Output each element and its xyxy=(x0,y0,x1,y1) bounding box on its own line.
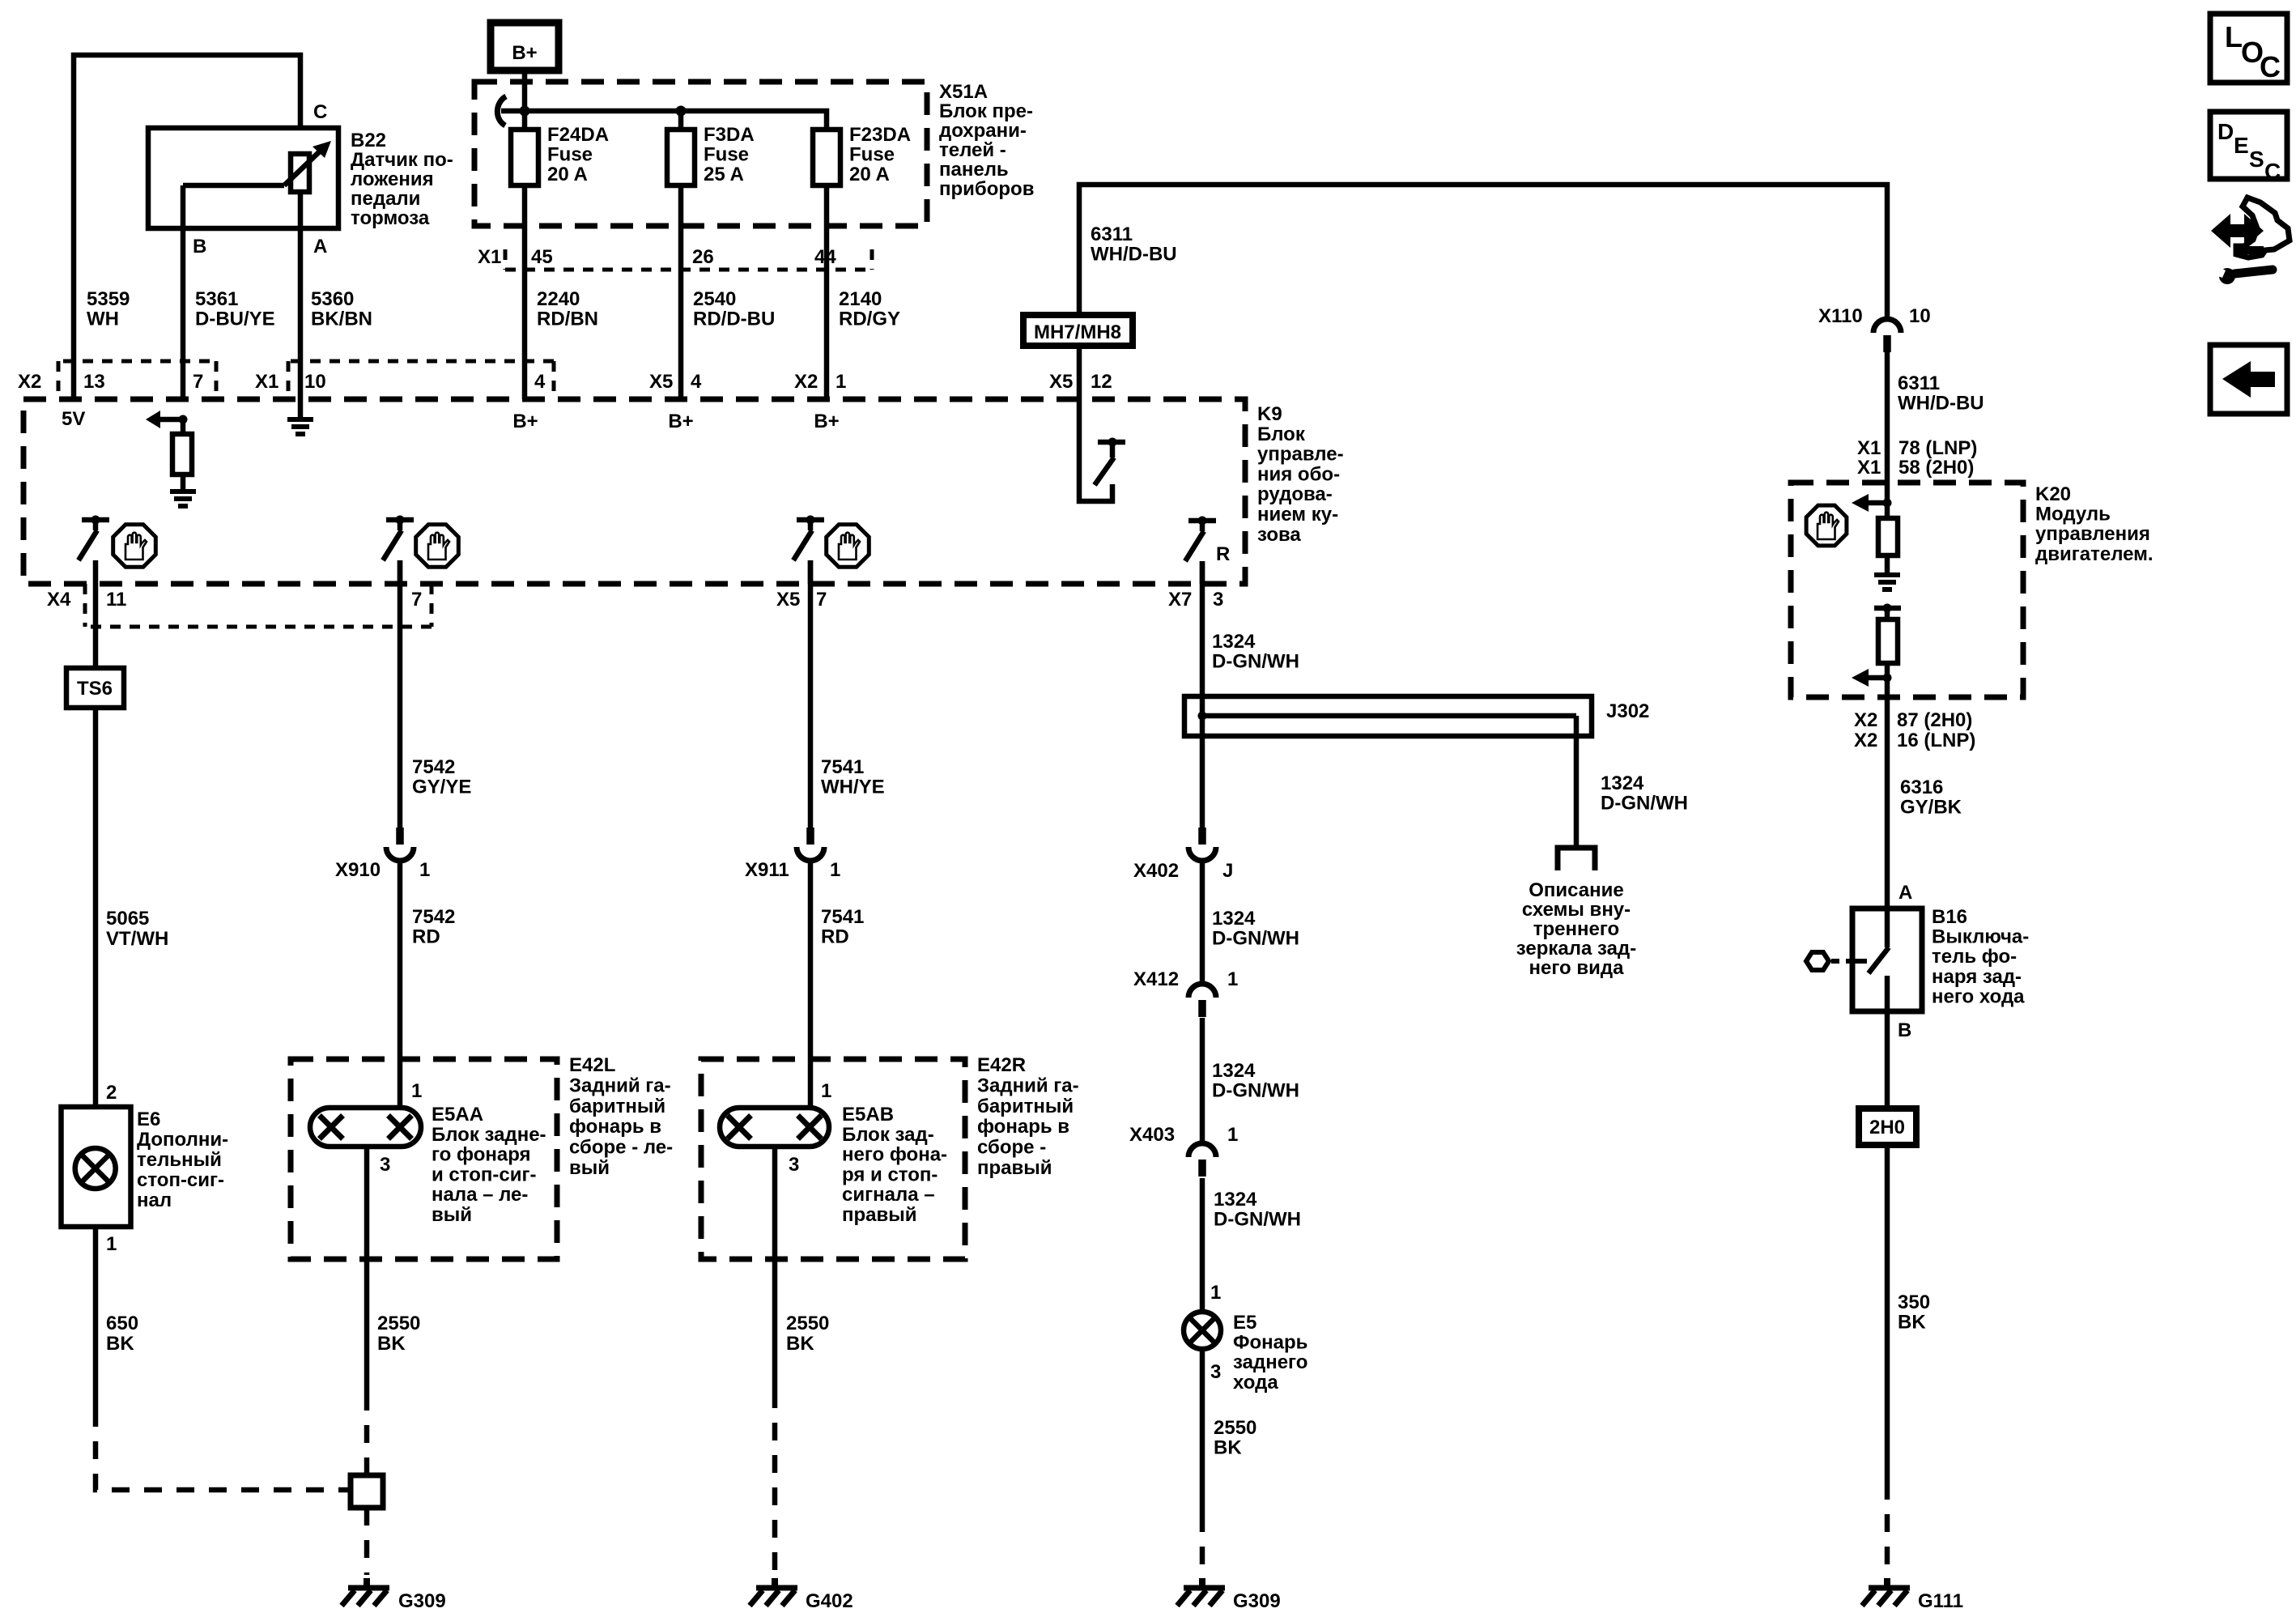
svg-text:WH/D-BU: WH/D-BU xyxy=(1898,393,1984,415)
connector X910 xyxy=(396,828,404,845)
wire X4-11 to TS6 xyxy=(93,584,99,668)
svg-text:WH: WH xyxy=(87,309,119,330)
svg-text:наря зад-: наря зад- xyxy=(1932,966,2022,988)
svg-text:D-BU/YE: D-BU/YE xyxy=(195,309,275,330)
svg-text:C: C xyxy=(2264,159,2281,184)
svg-text:нал: нал xyxy=(137,1189,172,1211)
svg-text:7541: 7541 xyxy=(821,756,864,778)
svg-text:1324: 1324 xyxy=(1212,631,1256,653)
svg-text:D-GN/WH: D-GN/WH xyxy=(1212,651,1299,673)
svg-text:го фонаря: го фонаря xyxy=(432,1144,531,1166)
svg-text:1: 1 xyxy=(1210,1282,1221,1304)
svg-text:управле-: управле- xyxy=(1257,444,1344,466)
svg-text:6316: 6316 xyxy=(1900,777,1943,798)
svg-text:E5: E5 xyxy=(1233,1312,1256,1334)
svg-text:панель: панель xyxy=(939,159,1009,181)
icon car with arrows and wrench xyxy=(2211,214,2264,248)
svg-text:650: 650 xyxy=(106,1313,138,1334)
svg-text:X1: X1 xyxy=(255,371,278,393)
wire 7542 RD xyxy=(398,861,403,1108)
svg-text:фонарь в: фонарь в xyxy=(977,1116,1069,1138)
svg-text:1: 1 xyxy=(821,1080,831,1102)
svg-text:WH/D-BU: WH/D-BU xyxy=(1091,244,1177,266)
manual actuator hex xyxy=(1806,952,1829,970)
svg-text:тель фо-: тель фо- xyxy=(1932,946,2017,968)
svg-text:X412: X412 xyxy=(1133,968,1179,990)
bulb unit E5AB (dual filament) xyxy=(720,1108,829,1147)
K20 series resistor xyxy=(1878,619,1898,663)
svg-text:F3DA: F3DA xyxy=(704,124,755,146)
svg-text:Fuse: Fuse xyxy=(547,144,593,166)
svg-text:Датчик по-: Датчик по- xyxy=(351,149,453,171)
stop-hand octagon 1 xyxy=(113,525,156,568)
svg-text:1: 1 xyxy=(419,859,430,881)
fuse F24DA 20A xyxy=(511,130,538,185)
svg-text:Выключа-: Выключа- xyxy=(1932,926,2029,948)
svg-text:X5: X5 xyxy=(649,371,673,393)
svg-text:WH/YE: WH/YE xyxy=(821,777,885,798)
svg-text:GY/YE: GY/YE xyxy=(412,777,471,798)
svg-text:X4: X4 xyxy=(47,589,71,611)
svg-text:E5AA: E5AA xyxy=(432,1104,483,1126)
svg-text:Fuse: Fuse xyxy=(849,144,895,166)
svg-text:X1: X1 xyxy=(1857,457,1881,479)
dashed wire to ground G111 xyxy=(1885,1482,1890,1575)
wire 7541 RD xyxy=(808,861,814,1108)
wire 1324 from K9 X7-3 xyxy=(1200,561,1205,828)
svg-text:1324: 1324 xyxy=(1214,1189,1257,1211)
svg-text:ния обо-: ния обо- xyxy=(1257,463,1340,485)
junction dot at F3DA xyxy=(676,106,687,117)
terminal to mirror circuit xyxy=(1558,848,1595,870)
stop-hand octagon 2 xyxy=(416,525,459,568)
svg-text:5065: 5065 xyxy=(106,908,149,930)
stop-hand octagon 3 xyxy=(827,525,870,568)
svg-text:J: J xyxy=(1222,860,1233,882)
wire pin X5-7 to E5AB xyxy=(808,560,814,828)
icon DESC box xyxy=(2210,112,2287,179)
K20 pull-up resistor xyxy=(1878,518,1898,555)
wire 2550 BK from E5 xyxy=(1200,1349,1205,1514)
ground under resistor xyxy=(170,489,196,494)
svg-text:схемы вну-: схемы вну- xyxy=(1522,899,1631,921)
svg-text:дохрани-: дохрани- xyxy=(939,120,1027,142)
svg-text:B+: B+ xyxy=(512,411,538,432)
svg-text:B22: B22 xyxy=(351,130,386,151)
svg-text:TS6: TS6 xyxy=(77,678,113,700)
svg-text:рудова-: рудова- xyxy=(1257,483,1333,505)
icon back-arrow box xyxy=(2210,345,2287,414)
svg-text:1: 1 xyxy=(1227,968,1238,990)
wire pin7 to E5AA xyxy=(398,560,403,828)
module K9 dashed box xyxy=(23,399,1245,584)
wire B16 to 2H0 xyxy=(1885,1011,1890,1108)
ground G111 xyxy=(1884,1578,1890,1586)
svg-text:B+: B+ xyxy=(814,411,839,432)
svg-text:20 A: 20 A xyxy=(547,164,588,185)
svg-text:7: 7 xyxy=(193,371,203,393)
svg-text:Задний га-: Задний га- xyxy=(977,1074,1079,1096)
svg-text:X2: X2 xyxy=(18,371,41,393)
svg-text:20 A: 20 A xyxy=(849,164,890,185)
svg-text:X5: X5 xyxy=(1049,371,1073,393)
svg-text:двигателем.: двигателем. xyxy=(2035,543,2154,565)
svg-text:1: 1 xyxy=(835,371,846,393)
svg-text:1324: 1324 xyxy=(1601,772,1644,794)
internal resistor on 5361 xyxy=(181,419,186,434)
svg-text:BK/BN: BK/BN xyxy=(311,309,372,330)
svg-text:G111: G111 xyxy=(1918,1590,1963,1612)
svg-text:2: 2 xyxy=(106,1082,117,1104)
ground G309 right xyxy=(1199,1578,1205,1586)
svg-text:350: 350 xyxy=(1898,1291,1930,1313)
wire A 5360 xyxy=(298,192,304,399)
svg-text:2H0: 2H0 xyxy=(1869,1117,1905,1138)
svg-text:D: D xyxy=(2217,119,2234,144)
fuse F23DA 20A xyxy=(813,130,840,185)
svg-text:4: 4 xyxy=(691,371,702,393)
svg-text:вый: вый xyxy=(432,1204,472,1226)
connector X911 xyxy=(806,828,814,845)
svg-text:Дополни-: Дополни- xyxy=(137,1129,228,1151)
wire B 5361 xyxy=(181,185,186,399)
sensor box B22 xyxy=(148,128,338,228)
svg-text:него вида: него вида xyxy=(1529,957,1625,979)
svg-text:K9: K9 xyxy=(1257,403,1282,425)
svg-text:Блок: Блок xyxy=(1257,423,1306,445)
svg-text:правый: правый xyxy=(842,1204,917,1226)
svg-text:Описание: Описание xyxy=(1529,879,1624,901)
svg-text:E42R: E42R xyxy=(977,1054,1026,1076)
svg-text:Фонарь: Фонарь xyxy=(1233,1332,1307,1354)
svg-text:зеркала зад-: зеркала зад- xyxy=(1516,938,1636,960)
svg-text:78 (LNP): 78 (LNP) xyxy=(1898,437,1977,459)
svg-text:тельный: тельный xyxy=(137,1149,222,1171)
lamp assembly E42R dashed box xyxy=(701,1059,965,1259)
J302 bus bar xyxy=(1202,713,1576,719)
svg-text:6311: 6311 xyxy=(1091,223,1133,245)
svg-text:3: 3 xyxy=(380,1154,390,1176)
dashed wire to ground xyxy=(364,1508,370,1575)
svg-text:87 (2H0): 87 (2H0) xyxy=(1897,709,1972,731)
svg-text:X911: X911 xyxy=(745,859,789,881)
dashed wire to splice square xyxy=(364,1393,370,1475)
lamp assembly E42L dashed box xyxy=(291,1059,557,1259)
wire from MH7/MH8 to K9 xyxy=(1077,346,1082,399)
wire 5359 WH loop from B22 pin C xyxy=(74,55,300,399)
svg-text:44: 44 xyxy=(814,246,836,268)
svg-text:16 (LNP): 16 (LNP) xyxy=(1897,730,1975,751)
ground G309 left xyxy=(364,1578,370,1586)
svg-text:ря и стоп-: ря и стоп- xyxy=(842,1164,938,1185)
K20 output tap xyxy=(1874,606,1901,611)
svg-text:5361: 5361 xyxy=(195,288,238,310)
svg-text:тормоза: тормоза xyxy=(351,207,430,229)
svg-text:стоп-сиг-: стоп-сиг- xyxy=(137,1169,224,1191)
svg-text:телей -: телей - xyxy=(939,139,1006,161)
svg-text:E5AB: E5AB xyxy=(842,1104,894,1126)
K9 bottom pin row dotted xyxy=(91,625,432,629)
svg-text:1: 1 xyxy=(830,859,840,881)
svg-text:X1: X1 xyxy=(478,246,501,268)
internal ref arrow on 5361 xyxy=(160,417,183,423)
splice junction square xyxy=(351,1475,383,1508)
svg-text:BK: BK xyxy=(1214,1437,1242,1459)
svg-text:2550: 2550 xyxy=(377,1313,420,1334)
svg-text:Задний га-: Задний га- xyxy=(569,1074,671,1096)
K9 top pin row dotted xyxy=(63,360,216,364)
svg-text:A: A xyxy=(313,236,327,257)
svg-text:X110: X110 xyxy=(1818,305,1863,327)
svg-text:BK: BK xyxy=(377,1333,406,1355)
svg-text:RD/GY: RD/GY xyxy=(839,309,900,330)
bus wire to fuses xyxy=(525,111,827,130)
svg-text:X2: X2 xyxy=(794,371,818,393)
dashed wire 650 BK to splice xyxy=(96,1409,351,1490)
svg-text:3: 3 xyxy=(1213,589,1223,611)
svg-text:E6: E6 xyxy=(137,1108,160,1130)
svg-text:педали: педали xyxy=(351,188,420,210)
svg-text:R: R xyxy=(1216,543,1230,565)
svg-text:C: C xyxy=(2260,50,2281,83)
module K20 dashed box xyxy=(1791,483,2023,697)
svg-text:Блок пре-: Блок пре- xyxy=(939,100,1033,122)
svg-text:1324: 1324 xyxy=(1212,908,1256,930)
lamp box E6 xyxy=(62,1107,131,1227)
svg-text:сборе - ле-: сборе - ле- xyxy=(569,1137,673,1159)
svg-text:X2: X2 xyxy=(1854,709,1877,731)
svg-text:F23DA: F23DA xyxy=(849,124,911,146)
svg-text:3: 3 xyxy=(789,1154,799,1176)
svg-text:X51A: X51A xyxy=(939,81,988,103)
K9 switch 1 (to TS6) xyxy=(82,517,109,523)
svg-text:приборов: приборов xyxy=(939,178,1034,200)
K9 switch from MH7/MH8 line xyxy=(1079,399,1112,501)
svg-text:Fuse: Fuse xyxy=(704,144,749,166)
svg-text:11: 11 xyxy=(106,589,126,611)
B16 switch blade xyxy=(1885,908,1890,947)
svg-text:RD: RD xyxy=(412,926,440,948)
net box 2H0 xyxy=(1859,1108,1916,1145)
fuse box X51A dashed outline xyxy=(474,82,927,226)
svg-text:сборе -: сборе - xyxy=(977,1137,1046,1159)
svg-text:D-GN/WH: D-GN/WH xyxy=(1212,928,1299,950)
svg-text:25 A: 25 A xyxy=(704,164,744,185)
svg-text:G309: G309 xyxy=(398,1590,446,1612)
svg-text:RD: RD xyxy=(821,926,849,948)
svg-text:VT/WH: VT/WH xyxy=(106,928,168,950)
svg-text:7: 7 xyxy=(411,589,422,611)
svg-text:F24DA: F24DA xyxy=(547,124,609,146)
svg-text:X2: X2 xyxy=(1854,730,1877,751)
connector box TS6 xyxy=(66,668,124,708)
svg-text:него фона-: него фона- xyxy=(842,1144,947,1166)
svg-text:фонарь в: фонарь в xyxy=(569,1116,661,1138)
svg-text:2550: 2550 xyxy=(786,1313,829,1334)
svg-text:Модуль: Модуль xyxy=(2035,504,2111,526)
svg-text:5V: 5V xyxy=(62,408,85,430)
svg-text:1: 1 xyxy=(1227,1124,1238,1146)
svg-text:10: 10 xyxy=(1909,305,1931,327)
svg-text:и стоп-сиг-: и стоп-сиг- xyxy=(432,1164,536,1185)
svg-text:26: 26 xyxy=(692,246,714,268)
wire 6316 GY/BK xyxy=(1885,697,1890,908)
svg-text:него хода: него хода xyxy=(1932,985,2025,1007)
connector X403 xyxy=(1188,1143,1216,1157)
svg-text:10: 10 xyxy=(304,371,326,393)
svg-text:7541: 7541 xyxy=(821,906,864,928)
svg-text:MH7/MH8: MH7/MH8 xyxy=(1034,321,1121,343)
svg-text:BK: BK xyxy=(106,1333,134,1355)
ground inside K20 xyxy=(1874,572,1900,577)
svg-text:B+: B+ xyxy=(668,411,693,432)
svg-text:E: E xyxy=(2234,133,2249,158)
svg-text:нала – ле-: нала – ле- xyxy=(432,1184,528,1206)
wire 350 BK xyxy=(1885,1145,1890,1482)
wire 2550 BK from E5AA xyxy=(364,1147,370,1393)
battery B+ box xyxy=(491,23,559,70)
svg-text:J302: J302 xyxy=(1606,700,1649,722)
wire 6311 WH/D-BU right xyxy=(1885,352,1890,483)
svg-text:заднего: заднего xyxy=(1233,1351,1307,1373)
ground G402 xyxy=(772,1578,778,1586)
K20 output ref arrow xyxy=(1883,674,1892,683)
svg-text:X403: X403 xyxy=(1129,1124,1175,1146)
svg-text:D-GN/WH: D-GN/WH xyxy=(1212,1080,1299,1102)
svg-text:1324: 1324 xyxy=(1212,1060,1256,1082)
svg-text:7542: 7542 xyxy=(412,756,455,778)
potentiometer inside B22 xyxy=(291,154,309,192)
svg-text:D-GN/WH: D-GN/WH xyxy=(1601,793,1688,815)
svg-text:L: L xyxy=(2225,20,2243,53)
svg-text:E42L: E42L xyxy=(569,1054,615,1076)
icon LOC box xyxy=(2210,14,2287,83)
svg-text:2240: 2240 xyxy=(537,288,580,310)
svg-text:вый: вый xyxy=(569,1157,610,1179)
fuse box pin row X1 45/26/44 xyxy=(505,268,872,272)
svg-text:баритный: баритный xyxy=(977,1096,1074,1117)
dashed wire to ground G402 xyxy=(772,1390,778,1575)
splice pack J302 box xyxy=(1184,696,1592,736)
svg-text:правый: правый xyxy=(977,1157,1052,1179)
svg-text:3: 3 xyxy=(1210,1361,1221,1383)
svg-text:X402: X402 xyxy=(1133,860,1179,882)
svg-text:Блок зад-: Блок зад- xyxy=(842,1124,934,1146)
wire 5065 VT/WH xyxy=(93,708,99,1107)
wire 650 BK xyxy=(93,1227,99,1409)
svg-text:Блок задне-: Блок задне- xyxy=(432,1124,546,1146)
svg-text:управления: управления xyxy=(2035,523,2150,545)
K9 switch 3 (to E5AB) xyxy=(797,517,824,523)
svg-text:B: B xyxy=(193,236,206,257)
wire from B+ into fuse box xyxy=(522,70,528,130)
svg-text:D-GN/WH: D-GN/WH xyxy=(1214,1209,1301,1231)
ground on 5360 inside K9 xyxy=(298,399,304,419)
svg-text:X7: X7 xyxy=(1168,589,1192,611)
svg-text:1: 1 xyxy=(411,1080,422,1102)
svg-text:RD/BN: RD/BN xyxy=(537,309,598,330)
wire 2550 BK from E5AB xyxy=(772,1147,778,1390)
clip hook symbol at bus junction xyxy=(497,96,506,126)
svg-text:5360: 5360 xyxy=(311,288,354,310)
svg-text:баритный: баритный xyxy=(569,1096,665,1117)
reverse lamp E5 xyxy=(1184,1312,1221,1349)
svg-text:BK: BK xyxy=(1898,1312,1926,1334)
svg-text:B: B xyxy=(1898,1019,1911,1041)
svg-text:2540: 2540 xyxy=(693,288,736,310)
bus junction dot xyxy=(520,106,530,117)
svg-text:хода: хода xyxy=(1233,1372,1278,1394)
svg-text:6311: 6311 xyxy=(1898,372,1940,394)
svg-text:2550: 2550 xyxy=(1214,1417,1256,1439)
svg-text:1: 1 xyxy=(106,1233,117,1255)
svg-text:X5: X5 xyxy=(776,589,800,611)
svg-text:X1: X1 xyxy=(1857,437,1881,459)
fuse F3DA 25A xyxy=(678,111,684,130)
svg-text:G309: G309 xyxy=(1233,1590,1281,1612)
svg-text:RD/D-BU: RD/D-BU xyxy=(693,309,775,330)
svg-text:ложения: ложения xyxy=(351,168,434,190)
svg-text:GY/BK: GY/BK xyxy=(1900,797,1962,819)
K9 switch 2 (to E5AA) xyxy=(386,517,414,523)
svg-text:G402: G402 xyxy=(806,1590,853,1612)
svg-text:7542: 7542 xyxy=(412,906,455,928)
K20 input wire and ref arrow xyxy=(1885,483,1890,518)
svg-text:B16: B16 xyxy=(1932,906,1967,928)
svg-text:S: S xyxy=(2249,147,2264,172)
connector X110 xyxy=(1873,319,1901,333)
connector X402 xyxy=(1198,828,1206,845)
dashed wire to ground xyxy=(1200,1514,1205,1575)
svg-text:5359: 5359 xyxy=(87,288,130,310)
connector X412 xyxy=(1188,984,1216,998)
K9 reverse switch R xyxy=(1188,518,1216,524)
reverse switch B16 box xyxy=(1852,908,1922,1011)
svg-text:B+: B+ xyxy=(512,42,537,64)
connector box MH7/MH8 xyxy=(1023,315,1133,346)
svg-text:зова: зова xyxy=(1257,524,1301,546)
svg-text:C: C xyxy=(313,101,327,123)
svg-text:4: 4 xyxy=(534,371,546,393)
svg-text:нием ку-: нием ку- xyxy=(1257,504,1338,526)
bulb unit E5AA (dual filament) xyxy=(310,1108,421,1147)
svg-text:A: A xyxy=(1898,882,1912,904)
svg-text:X910: X910 xyxy=(335,859,381,881)
svg-text:треннего: треннего xyxy=(1533,918,1619,940)
svg-text:2140: 2140 xyxy=(839,288,882,310)
wire 6311 top run xyxy=(1079,185,1887,319)
lamp symbol E6 xyxy=(75,1148,116,1189)
svg-text:58 (2H0): 58 (2H0) xyxy=(1898,457,1974,479)
svg-text:K20: K20 xyxy=(2035,483,2071,505)
svg-text:BK: BK xyxy=(786,1333,814,1355)
svg-text:13: 13 xyxy=(83,371,105,393)
svg-text:7: 7 xyxy=(816,589,827,611)
svg-text:сигнала –: сигнала – xyxy=(842,1184,935,1206)
stop-hand octagon K20 xyxy=(1806,505,1847,546)
svg-text:12: 12 xyxy=(1091,371,1112,393)
svg-text:45: 45 xyxy=(531,246,553,268)
